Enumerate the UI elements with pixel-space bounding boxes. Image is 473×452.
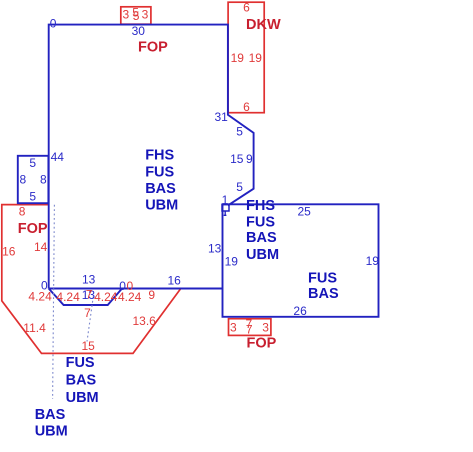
svg-text:FUS: FUS [308,270,337,286]
red roof box top (3 5 3) [121,7,151,24]
red roof box bottom (3 7 3) [229,319,271,336]
svg-text:30: 30 [132,24,146,38]
svg-text:3: 3 [142,7,149,21]
svg-text:26: 26 [293,304,307,318]
dashed leader line to 15 [87,297,93,342]
svg-text:4.24: 4.24 [94,290,118,304]
svg-text:FHS: FHS [246,198,275,214]
svg-text:4.24: 4.24 [28,289,52,303]
svg-text:3: 3 [123,7,130,21]
svg-text:13.6: 13.6 [133,314,157,328]
svg-text:19: 19 [249,51,263,65]
svg-text:8: 8 [20,172,27,186]
svg-text:3: 3 [230,320,237,334]
svg-text:6: 6 [243,1,250,15]
svg-text:BAS: BAS [35,407,66,423]
svg-text:5: 5 [236,180,243,194]
svg-text:UBM: UBM [145,197,178,213]
svg-text:FOP: FOP [247,335,277,351]
node 1 square marker [222,205,229,211]
node tick below square [224,211,227,216]
red FOP roof outline [2,205,181,354]
svg-text:5: 5 [236,124,243,138]
svg-text:15: 15 [82,339,96,353]
svg-text:25: 25 [298,205,312,219]
svg-text:0: 0 [50,17,57,31]
trapezoid dip below boundary [49,289,122,306]
svg-text:7: 7 [84,306,91,320]
svg-text:5: 5 [133,9,140,23]
svg-text:7: 7 [86,288,93,302]
wire bottom boundary line [49,288,223,290]
svg-text:BAS: BAS [246,230,277,246]
svg-text:6: 6 [243,100,250,114]
svg-text:FUS: FUS [66,355,95,371]
svg-text:9: 9 [246,152,253,166]
svg-text:14: 14 [34,240,48,254]
svg-text:19: 19 [231,51,245,65]
svg-text:BAS: BAS [308,286,339,302]
right building rectangle FUS BAS [223,204,379,316]
svg-text:31: 31 [215,110,229,124]
svg-text:DKW: DKW [246,17,281,33]
svg-text:16: 16 [168,274,182,288]
svg-text:8: 8 [40,172,47,186]
svg-text:19: 19 [225,255,239,269]
svg-text:UBM: UBM [246,247,279,263]
svg-text:13: 13 [208,241,222,255]
svg-text:FHS: FHS [145,148,174,164]
dashed hidden line left [53,205,55,399]
svg-text:BAS: BAS [145,181,176,197]
svg-text:4.24: 4.24 [56,290,80,304]
main building outline (blue polygon) [49,25,254,289]
svg-text:3: 3 [262,320,269,334]
left small annex rectangle [18,156,49,203]
svg-text:FOP: FOP [138,39,168,55]
svg-text:5: 5 [29,189,36,203]
svg-text:15: 15 [230,152,244,166]
svg-text:8: 8 [19,204,26,218]
svg-text:13: 13 [82,273,96,287]
svg-text:UBM: UBM [35,424,68,440]
svg-text:19: 19 [366,254,380,268]
svg-text:16: 16 [2,244,16,258]
svg-text:FUS: FUS [246,215,275,231]
svg-text:5: 5 [29,156,36,170]
svg-text:44: 44 [51,150,65,164]
red DKW dormer box [228,2,264,113]
svg-text:FUS: FUS [145,164,174,180]
svg-text:9: 9 [148,288,155,302]
svg-text:11.4: 11.4 [23,321,46,335]
svg-text:1: 1 [222,193,229,207]
svg-text:UBM: UBM [66,390,99,406]
svg-text:FOP: FOP [18,221,48,237]
svg-text:0: 0 [127,279,134,293]
svg-text:BAS: BAS [66,373,97,389]
